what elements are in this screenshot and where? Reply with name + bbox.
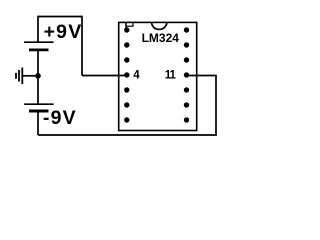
svg-text:+9V: +9V — [44, 21, 83, 43]
notch — [152, 22, 167, 29]
node ground junction — [35, 73, 41, 79]
battery B2 -9V — [24, 104, 53, 111]
pin 1 marker — [126, 22, 133, 30]
wire ground stub — [22, 75, 38, 77]
svg-text:4: 4 — [133, 70, 140, 82]
svg-text:11: 11 — [165, 70, 177, 82]
wire top: battery positive to vertical feed — [38, 17, 82, 76]
op-amp U1 LM324 body — [119, 22, 197, 130]
wire battery negative to bottom — [37, 111, 39, 135]
wire pin4 feed: vertical drop to pin 4 — [82, 75, 127, 77]
svg-text:-9V: -9V — [43, 107, 77, 129]
wire bottom run to pin 11 — [38, 76, 216, 136]
pin dots right column (pins 8-14) — [184, 27, 189, 122]
svg-text:LM324: LM324 — [142, 31, 180, 45]
ground — [16, 68, 22, 85]
wire battery midpoint — [37, 50, 39, 104]
battery B1 +9V — [24, 42, 53, 50]
pin dots left column (pins 1-7) — [124, 27, 129, 122]
